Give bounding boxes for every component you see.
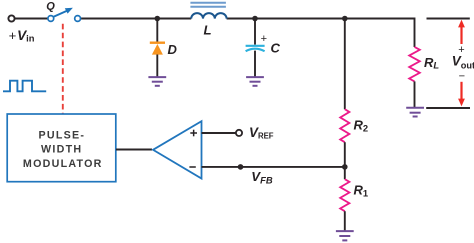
diode D anode triangle (152, 44, 163, 55)
resistor RL (409, 47, 420, 82)
pulse-width modulator box (7, 114, 116, 182)
ground below RL (406, 108, 424, 117)
wire: switch to inductor (80, 18, 191, 20)
svg-text:C: C (271, 41, 281, 56)
svg-text:PULSE-: PULSE- (39, 130, 86, 142)
node: junction at capacitor (252, 16, 258, 22)
wire: diode to ground (156, 55, 158, 78)
svg-text:L: L (204, 23, 212, 38)
node: junction at diode (155, 16, 161, 22)
Vout down arrow (460, 82, 462, 99)
svg-text:+: + (261, 33, 267, 45)
square wave symbol (3, 81, 46, 92)
svg-text:D: D (168, 42, 178, 57)
capacitor C top plate (246, 45, 265, 47)
wire: op-amp output to PWM box (116, 149, 152, 151)
node: feedback junction (342, 164, 348, 170)
Vout top rail (427, 18, 470, 20)
wire: + input to VREF terminal (202, 132, 236, 134)
wire: junction down to R2 (344, 19, 346, 110)
terminal VREF (236, 130, 242, 136)
op-amp + input mark (190, 130, 197, 137)
wire: R2 to junction and to R1 (344, 142, 346, 179)
inductor L coil (191, 13, 226, 18)
node: VFB (238, 164, 244, 170)
switch Q arrowhead (65, 8, 73, 14)
op-amp U1 (comparator) (153, 121, 202, 178)
switch Q arm (53, 11, 67, 17)
wire: junction down to capacitor (254, 19, 256, 45)
diode D cathode bar (150, 42, 165, 44)
Vout bottom rail (426, 107, 470, 109)
svg-text:Q: Q (46, 0, 55, 12)
wire: RL to ground (414, 81, 416, 107)
capacitor C bottom plate (curved) (246, 49, 265, 52)
ground below diode (148, 77, 166, 86)
inductor L core lines (190, 2, 226, 4)
wire: R1 to ground (344, 211, 346, 231)
resistor R1 (340, 179, 349, 211)
red dashed control line (62, 24, 64, 114)
switch Q contact right (75, 16, 81, 22)
node: junction at R2 branch (342, 16, 348, 22)
svg-text:WIDTH: WIDTH (41, 144, 82, 156)
ground below R1 (336, 231, 354, 240)
wire: capacitor to ground (254, 51, 256, 78)
wire: inductor to top-right corner and down to RL (227, 19, 415, 48)
switch Q contact left (48, 16, 54, 22)
svg-text:MODULATOR: MODULATOR (23, 158, 103, 170)
ground below capacitor (246, 77, 264, 86)
terminal +Vin (8, 15, 14, 21)
svg-text:−: − (459, 71, 465, 83)
wire: input terminal to switch (15, 18, 48, 20)
resistor R2 (340, 109, 349, 142)
Vout up arrow (460, 26, 462, 45)
op-amp - input mark (189, 166, 195, 168)
wire: - input (feedback) to divider junction (202, 166, 345, 168)
wire: junction down to diode (156, 19, 158, 43)
